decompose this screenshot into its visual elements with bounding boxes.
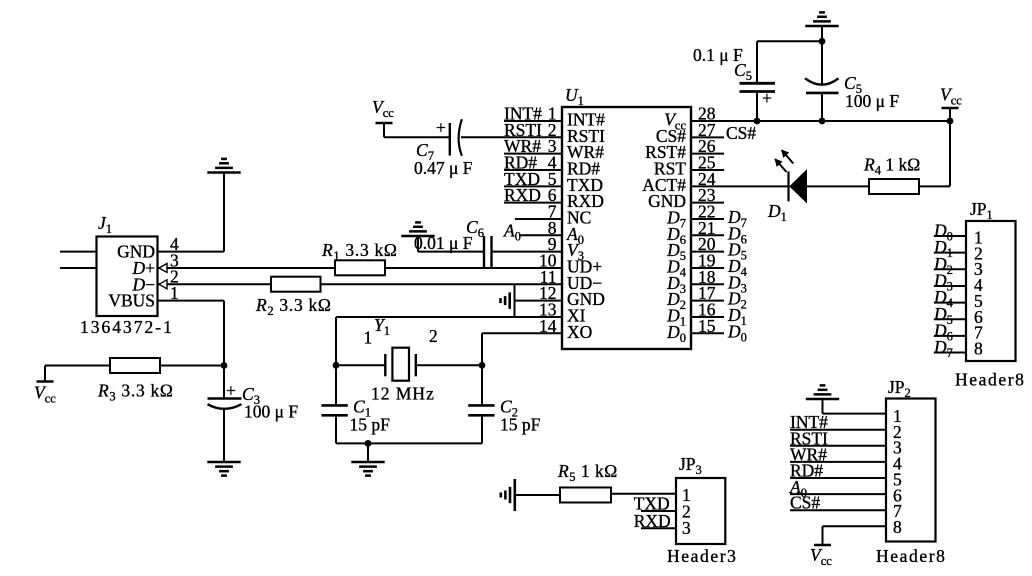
svg-text:+: + bbox=[762, 88, 772, 108]
svg-text:15 pF: 15 pF bbox=[500, 415, 541, 435]
svg-text:3: 3 bbox=[682, 518, 691, 538]
svg-text:XO: XO bbox=[567, 322, 592, 342]
svg-text:Header8: Header8 bbox=[955, 370, 1025, 390]
svg-text:0.47 μ F: 0.47 μ F bbox=[414, 158, 473, 178]
svg-text:12 MHz: 12 MHz bbox=[371, 384, 435, 404]
svg-text:0.01 μ F: 0.01 μ F bbox=[414, 233, 473, 253]
svg-text:8: 8 bbox=[893, 517, 902, 537]
svg-text:R1 3.3 kΩ: R1 3.3 kΩ bbox=[321, 240, 398, 263]
svg-text:1: 1 bbox=[364, 328, 373, 348]
svg-text:100 μ F: 100 μ F bbox=[845, 91, 899, 111]
svg-text:2: 2 bbox=[429, 326, 438, 346]
svg-text:VBUS: VBUS bbox=[108, 291, 155, 311]
svg-text:15: 15 bbox=[698, 316, 716, 336]
svg-text:1364372-1: 1364372-1 bbox=[80, 317, 174, 337]
svg-text:R5 1 kΩ: R5 1 kΩ bbox=[557, 461, 618, 484]
svg-text:R2 3.3 kΩ: R2 3.3 kΩ bbox=[255, 295, 332, 318]
svg-text:RXD: RXD bbox=[634, 511, 671, 531]
svg-text:R4 1 kΩ: R4 1 kΩ bbox=[863, 155, 920, 178]
svg-text:CS#: CS# bbox=[726, 123, 756, 143]
svg-text:100 μ F: 100 μ F bbox=[244, 402, 298, 422]
svg-text:+: + bbox=[436, 118, 446, 138]
svg-text:R3 3.3 kΩ: R3 3.3 kΩ bbox=[97, 381, 174, 404]
svg-text:8: 8 bbox=[974, 338, 983, 358]
svg-text:Header8: Header8 bbox=[876, 546, 946, 566]
svg-text:15 pF: 15 pF bbox=[350, 415, 391, 435]
svg-text:RXD: RXD bbox=[504, 185, 541, 205]
svg-text:+: + bbox=[226, 381, 236, 401]
svg-text:Header3: Header3 bbox=[667, 546, 737, 566]
